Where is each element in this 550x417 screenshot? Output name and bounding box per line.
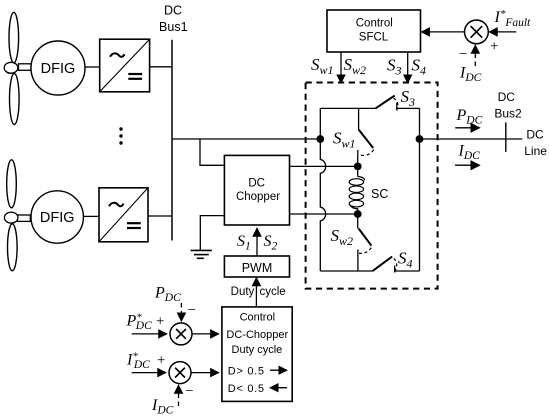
- label Duty cycle (between controller and PWM): [231, 286, 286, 298]
- svg-text:DC-Chopper: DC-Chopper: [226, 329, 288, 341]
- DC Bus2 tick: [505, 122, 507, 151]
- PWM box: [224, 256, 289, 277]
- plus sign X3: [156, 353, 166, 369]
- SFCL top wire: [320, 107, 375, 109]
- svg-text:IDC: IDC: [459, 65, 482, 85]
- node below SC: [354, 210, 362, 218]
- wind turbine WT1 lower blade: [10, 74, 20, 125]
- wire DC Bus1 to SFCL left node: [172, 138, 320, 140]
- generator DFIG1: [31, 41, 85, 95]
- svg-text:S2: S2: [264, 233, 278, 253]
- svg-text:DC: DC: [498, 90, 516, 104]
- svg-text:P*DC: P*DC: [126, 312, 153, 333]
- arrow X2 to controller: [192, 333, 219, 335]
- switch S3: [376, 87, 416, 111]
- arrow PWM to chopper: [256, 228, 258, 256]
- svg-text:Line: Line: [524, 144, 547, 158]
- label Sw1 gate: [311, 55, 334, 77]
- superconducting coil SC: [349, 166, 388, 214]
- multiplier X2 (power comparator): [170, 323, 192, 345]
- label PDC with arrow: [455, 107, 482, 128]
- svg-text:+: +: [489, 39, 499, 55]
- svg-text:Sw2: Sw2: [344, 55, 367, 77]
- multiplier X1 (fault comparator): [465, 20, 489, 44]
- svg-text:Bus2: Bus2: [494, 106, 522, 120]
- svg-text:+: +: [155, 314, 165, 330]
- control signal arrow Sw1/Sw2: [340, 52, 342, 83]
- svg-text:IDC: IDC: [151, 397, 174, 417]
- arrow X3 to controller: [191, 372, 219, 374]
- svg-text:Control: Control: [356, 17, 393, 29]
- converter U2 (AC/DC): [99, 188, 148, 242]
- dashed PDC feedback into X2: [180, 303, 182, 321]
- arrow controller to PWM: [255, 278, 257, 307]
- wind turbine WT1 hub: [4, 62, 18, 73]
- svg-text:+: +: [156, 353, 166, 369]
- wire I*Fault input: [489, 31, 516, 33]
- svg-text:DC: DC: [526, 127, 544, 141]
- svg-text:SFCL: SFCL: [359, 32, 389, 44]
- svg-text:cycle: cycle: [260, 286, 286, 298]
- label S4 gate: [412, 55, 427, 77]
- generator DFIG2: [31, 191, 83, 243]
- vertical dots (more wind units): [119, 127, 122, 144]
- SFCL bottom wire: [320, 270, 372, 272]
- svg-text:PDC: PDC: [456, 107, 483, 127]
- svg-text:Chopper: Chopper: [236, 191, 280, 203]
- wind turbine WT1 upper blade: [9, 12, 19, 62]
- svg-text:Control: Control: [240, 311, 275, 323]
- label IDC feedback bottom: [151, 397, 174, 417]
- svg-text:PWM: PWM: [242, 261, 273, 275]
- svg-text:I*DC: I*DC: [126, 351, 150, 372]
- DC Bus1: [171, 40, 173, 241]
- wire DC Chopper to SC top node: [290, 165, 358, 167]
- svg-text:D> 0.5: D> 0.5: [228, 365, 265, 377]
- dashed IDC feedback into X1: [474, 45, 476, 66]
- minus sign X2: [186, 303, 196, 319]
- wire converter U2 to DC Bus1: [148, 215, 172, 217]
- label DC Line: [524, 127, 547, 158]
- svg-text:−: −: [184, 384, 194, 400]
- label IDC with arrow: [455, 143, 480, 166]
- multiplier X3 (current comparator): [169, 362, 191, 384]
- svg-text:Sw1: Sw1: [311, 55, 334, 77]
- switch S4: [373, 249, 413, 273]
- wind turbine WT2 hub: [4, 212, 18, 223]
- svg-text:D< 0.5: D< 0.5: [228, 383, 265, 395]
- Control SFCL box: [327, 10, 421, 52]
- svg-text:DC: DC: [164, 4, 182, 18]
- plus sign X2: [155, 314, 165, 330]
- wire DC Chopper to ground: [200, 216, 224, 251]
- Control DC-Chopper box: [222, 307, 292, 402]
- label S1: [237, 233, 251, 253]
- wire DC Chopper to SC bottom node: [290, 213, 358, 215]
- label PDC reference (top of comparator): [154, 285, 181, 305]
- arrow into X2: [132, 333, 167, 335]
- label Sw2 gate: [344, 55, 367, 77]
- svg-text:S1: S1: [237, 233, 251, 253]
- svg-text:IDC: IDC: [458, 143, 481, 163]
- wind turbine WT1 shaft: [19, 64, 32, 71]
- svg-text:S4: S4: [398, 249, 413, 271]
- label DC Bus2: [494, 90, 522, 120]
- svg-text:DFIG: DFIG: [40, 210, 75, 226]
- svg-text:S3: S3: [401, 87, 416, 109]
- label DC Bus1: [159, 4, 188, 34]
- wire converter U1 to DC Bus1: [150, 66, 172, 68]
- wire S4 to right branch: [395, 270, 420, 272]
- svg-text:S4: S4: [412, 55, 427, 77]
- dashed IDC feedback into X3: [178, 385, 180, 406]
- svg-text:Bus1: Bus1: [159, 20, 188, 34]
- dashed box SFCL: [306, 83, 438, 289]
- svg-text:−: −: [458, 47, 468, 63]
- SFCL right branch wire: [419, 108, 421, 271]
- svg-text:SC: SC: [371, 187, 388, 201]
- svg-text:Duty cycle: Duty cycle: [232, 344, 283, 356]
- label I*Fault: [494, 8, 532, 29]
- svg-text:Sw2: Sw2: [331, 226, 354, 248]
- wire DFIG1 to converter U1: [85, 66, 100, 68]
- node right (DC line side): [416, 135, 424, 143]
- svg-text:DC: DC: [248, 178, 265, 190]
- switch Sw1: [333, 108, 374, 166]
- SFCL left branch wire with hops: [320, 108, 325, 271]
- switch Sw2: [331, 214, 372, 271]
- converter U1 (AC/DC): [100, 39, 150, 92]
- svg-text:S3: S3: [387, 55, 402, 77]
- arrow multiplier X1 to Control SFCL: [422, 31, 465, 33]
- wire right node to DC Bus2: [420, 138, 523, 140]
- svg-text:Sw1: Sw1: [333, 129, 356, 151]
- minus sign X3: [184, 384, 194, 400]
- wire branch to DC Chopper input: [200, 139, 224, 165]
- svg-text:−: −: [186, 303, 196, 319]
- svg-text:DFIG: DFIG: [41, 61, 76, 77]
- svg-text:Duty: Duty: [231, 286, 255, 298]
- wind turbine WT2 lower blade: [8, 224, 18, 271]
- arrow into X3: [132, 372, 166, 374]
- ground: [191, 250, 212, 258]
- wind turbine WT2 shaft: [17, 215, 30, 221]
- minus sign X1: [458, 47, 468, 63]
- wire S3 to right branch: [397, 107, 420, 109]
- label S3 gate: [387, 55, 402, 77]
- plus sign X1: [489, 39, 499, 55]
- wire DFIG2 to converter U2: [83, 215, 99, 217]
- control signal arrow S3/S4: [407, 52, 409, 83]
- label IDC (fault feedback): [459, 65, 482, 85]
- svg-text:PDC: PDC: [154, 285, 181, 305]
- node above SC: [354, 163, 362, 171]
- wind turbine WT2 upper blade: [7, 160, 17, 208]
- DC Chopper U3: [224, 155, 289, 225]
- svg-text:I*Fault: I*Fault: [494, 8, 532, 29]
- label I*DC: [126, 351, 150, 372]
- node left (DC bus side): [316, 135, 324, 143]
- label P*DC: [126, 312, 153, 333]
- label S2: [264, 233, 278, 253]
